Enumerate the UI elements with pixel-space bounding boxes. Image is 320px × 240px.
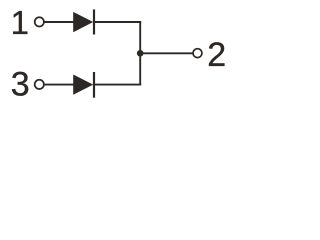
junction node dot [137, 50, 144, 57]
diode D2 (anode triangle) [73, 74, 93, 94]
svg-text:2: 2 [207, 36, 226, 74]
wire pin1 to diode D1 anode [44, 21, 74, 23]
diode D2 cathode bar [93, 72, 95, 98]
wire pin3 to diode D2 anode [44, 84, 74, 86]
diode D1 (anode triangle) [73, 12, 93, 32]
wire node to pin 2 [140, 52, 193, 54]
pin 3 terminal circle [35, 80, 44, 89]
wire D2 cathode to common node [95, 84, 142, 86]
diode D1 cathode bar [93, 9, 95, 34]
pin 1 terminal circle [35, 17, 44, 26]
wire D1 cathode to common node [95, 21, 142, 23]
pin 2 terminal circle [193, 49, 202, 58]
svg-text:1: 1 [11, 4, 29, 41]
svg-text:3: 3 [11, 66, 30, 104]
common cathode vertical wire [139, 21, 141, 85]
